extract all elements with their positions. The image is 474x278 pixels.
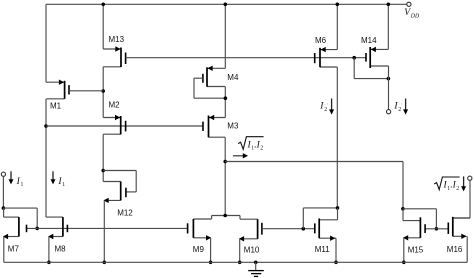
- junction M13-VDD: [101, 3, 105, 7]
- svg-text:M16: M16: [447, 245, 463, 254]
- junction M4 gate-source: [224, 96, 228, 100]
- wire M15 diode gate loop: [403, 209, 437, 229]
- arrow I1 left: [9, 171, 14, 184]
- junction M11 gate node: [302, 227, 306, 231]
- arrow output current down: [461, 176, 466, 191]
- wire output terminal to M16 drain: [453, 180, 470, 218]
- junction M6-VDD: [336, 3, 340, 7]
- junction M1 source / gate line: [44, 124, 48, 128]
- wire M13 source from VDD rail: [102, 4, 104, 49]
- wire M1 drain from VDD rail: [45, 4, 47, 82]
- junction M10-ground: [238, 261, 242, 265]
- junction output current tap: [223, 160, 227, 164]
- transistor M1: [46, 80, 103, 111]
- wire M10 drain step: [239, 216, 241, 220]
- label I1 left: [16, 177, 24, 188]
- label VDD: [404, 8, 420, 19]
- junction M15 drain-gate node: [401, 207, 405, 211]
- svg-text:M12: M12: [117, 208, 133, 217]
- transistor M16: [447, 217, 470, 254]
- wire output current to M15 branch: [225, 161, 403, 163]
- svg-text:M9: M9: [193, 245, 205, 254]
- wire gate line M7-M8-M9: [27, 227, 188, 229]
- transistor M2: [103, 101, 125, 135]
- node VDD rail: [46, 3, 408, 5]
- transistor M6: [315, 36, 338, 67]
- terminal sqrt(I1.I2) output: [468, 176, 472, 180]
- terminal I1 input: [1, 172, 5, 176]
- wire M8 source to ground rail: [48, 237, 50, 263]
- wire gate bus M13-M6-M14: [126, 57, 366, 59]
- arrow I2 left: [329, 99, 334, 115]
- wire M4 gate to source node: [194, 78, 225, 98]
- transistor M10: [239, 219, 262, 254]
- wire M7 gate feed: [3, 208, 37, 228]
- wire M3 source to M9/M10 drain node: [224, 137, 226, 215]
- svg-text:M4: M4: [227, 73, 239, 82]
- svg-text:2: 2: [324, 107, 327, 113]
- svg-text:M13: M13: [109, 35, 125, 44]
- svg-text:M7: M7: [8, 245, 20, 254]
- svg-text:1: 1: [62, 182, 65, 188]
- wire M15 drain: [402, 209, 404, 221]
- svg-text:M15: M15: [408, 245, 424, 254]
- label I1 on M8 branch: [57, 177, 65, 188]
- junction gate bus / M14 diode tap: [352, 56, 356, 60]
- junction M7 gate line: [35, 227, 39, 231]
- label I2 left: [319, 102, 328, 113]
- svg-text:M2: M2: [109, 101, 121, 110]
- wire M6 source to M11 drain node: [336, 67, 338, 208]
- svg-text:M3: M3: [227, 122, 239, 131]
- svg-text:M1: M1: [50, 102, 62, 111]
- arrow I2 right: [403, 99, 408, 115]
- svg-text:M11: M11: [315, 245, 331, 254]
- svg-text:′: ′: [327, 102, 328, 107]
- terminal I2 output: [387, 110, 391, 114]
- junction M9/M10 drain node: [223, 214, 227, 218]
- wire M2 source to M12 drain: [102, 134, 104, 181]
- arrow I1 on M8 branch: [51, 171, 56, 184]
- wire down to M15 diode node: [402, 162, 404, 209]
- transistor M3: [203, 115, 239, 138]
- wire M9 source to ground rail: [210, 238, 212, 262]
- wire M16 source to ground rail: [466, 236, 468, 262]
- wire M12 source to ground rail: [103, 200, 105, 262]
- junction ground stub: [254, 261, 258, 265]
- wire M7 source to ground rail: [3, 237, 5, 263]
- arrow output current direction: [233, 153, 248, 158]
- transistor M4: [194, 66, 239, 87]
- transistor M7: [3, 217, 27, 253]
- node ground rail: [4, 261, 467, 263]
- svg-text:′: ′: [401, 102, 402, 107]
- label sqrt(I1.I2) output: [434, 177, 459, 192]
- svg-text:2: 2: [398, 107, 401, 113]
- wire M14 diode connection: [354, 58, 388, 79]
- wire M7 drain: [3, 208, 5, 217]
- ground: [248, 262, 264, 276]
- label I2 right: [393, 102, 402, 113]
- wire M14 source down to I2 output terminal: [388, 66, 390, 110]
- VDD terminal: [407, 2, 411, 6]
- junction M9-ground: [209, 261, 213, 265]
- junction M7 drain-gate node: [2, 206, 6, 210]
- wire M13 drain to M2 drain: [102, 67, 104, 118]
- junction M11-ground: [334, 261, 338, 265]
- junction M14-VDD: [387, 3, 391, 7]
- junction M14 gate-source: [387, 77, 391, 81]
- junction M12-ground: [103, 261, 107, 265]
- svg-text:1: 1: [21, 182, 24, 188]
- junction M15/M16 gate node: [435, 227, 439, 231]
- junction M4-VDD: [224, 3, 228, 7]
- wire gate line M10-M11: [262, 228, 315, 230]
- wire M15 source to ground rail: [403, 238, 405, 262]
- junction M1 gate node: [101, 89, 105, 93]
- wire M4 source to M3 drain: [224, 87, 226, 118]
- wire M10 source to ground rail: [239, 239, 241, 262]
- junction M8-ground: [47, 261, 51, 265]
- transistor M13: [103, 35, 125, 67]
- transistor M8: [46, 217, 67, 253]
- transistor M14: [361, 36, 389, 68]
- wire M11 drain: [337, 208, 339, 220]
- wire gate line M15-M16: [425, 228, 448, 230]
- wire M9 drain step: [212, 216, 240, 220]
- svg-text:M10: M10: [244, 245, 260, 254]
- transistor M15: [403, 217, 425, 254]
- transistor M12: [103, 182, 133, 218]
- svg-text:M8: M8: [55, 245, 67, 254]
- svg-text:2: 2: [260, 146, 263, 152]
- transistor M11: [315, 219, 338, 254]
- svg-text:M6: M6: [315, 36, 327, 45]
- wire M11 diode gate loop: [303, 208, 337, 229]
- wire M1 source to M8 drain: [45, 99, 47, 217]
- wire gate line M2-M3 from M1 source: [46, 125, 203, 127]
- junction M12 gate-drain node: [101, 169, 105, 173]
- wire M12 diode gate loop: [103, 171, 136, 192]
- svg-text:2: 2: [456, 186, 459, 192]
- wire M6 source from VDD rail: [336, 4, 338, 49]
- junction M15-ground: [402, 261, 406, 265]
- wire I1 terminal to M7 node: [2, 176, 4, 208]
- junction M11 drain-gate node: [336, 206, 340, 210]
- wire M14 source from VDD rail: [387, 4, 389, 49]
- transistor M9: [188, 219, 212, 254]
- svg-text:DD: DD: [410, 14, 420, 20]
- wire M11 source to ground rail: [335, 238, 337, 262]
- label sqrt(I1.I2) mid: [238, 137, 263, 152]
- svg-text:M14: M14: [361, 36, 377, 45]
- wire M4 drain from VDD rail: [224, 4, 226, 68]
